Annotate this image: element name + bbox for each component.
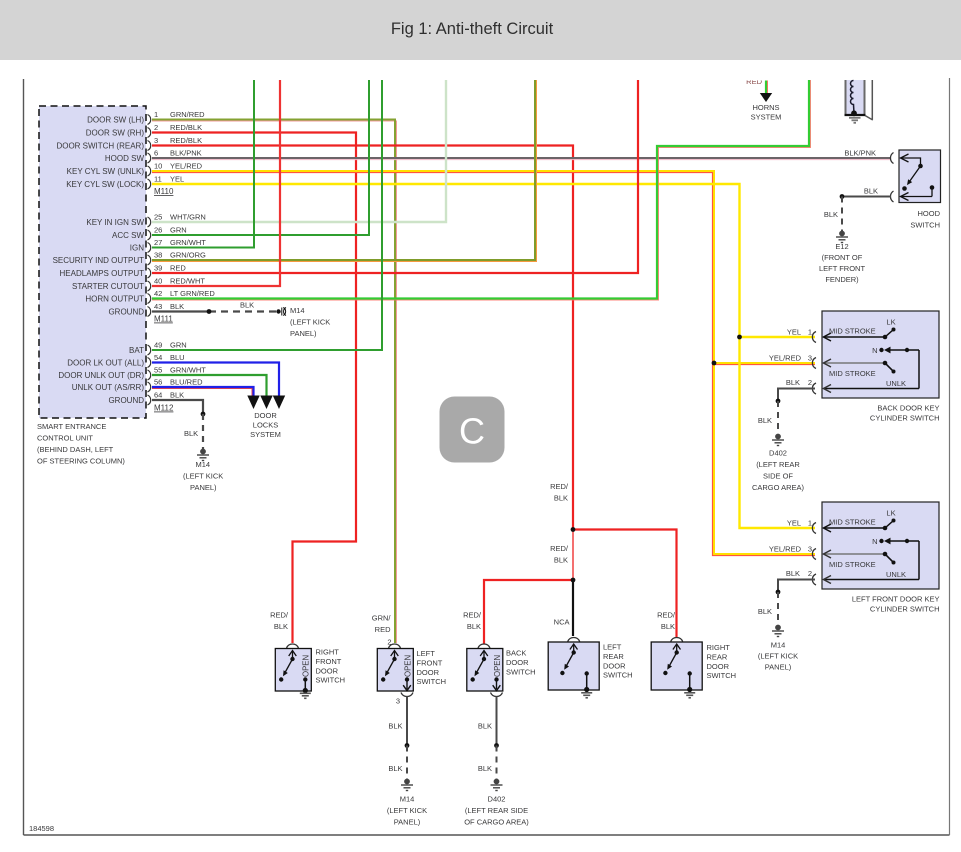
svg-text:RED/: RED/	[657, 611, 676, 620]
svg-text:BLK/PNK: BLK/PNK	[844, 149, 876, 158]
svg-text:3: 3	[808, 354, 812, 363]
svg-text:RED/: RED/	[270, 611, 289, 620]
wire YEL/RED pin10 to key cylinder switches	[152, 173, 815, 556]
svg-text:RED/: RED/	[463, 611, 482, 620]
svg-text:SWITCH: SWITCH	[707, 671, 737, 680]
svg-text:PANEL): PANEL)	[290, 329, 317, 338]
wire BLK/PNK pin6 to hood switch	[152, 159, 891, 161]
svg-text:RED/BLK: RED/BLK	[170, 136, 202, 145]
back door switch ground pin contact	[494, 677, 498, 681]
svg-text:3: 3	[154, 136, 158, 145]
left front door key cylinder switch box	[822, 502, 939, 589]
svg-text:(LEFT KICK: (LEFT KICK	[183, 472, 223, 481]
svg-text:DOOR: DOOR	[316, 666, 339, 675]
ground D402 for back door key cylinder	[772, 434, 784, 445]
svg-text:49: 49	[154, 341, 162, 350]
svg-text:RED/WHT: RED/WHT	[170, 277, 205, 286]
ground E12	[836, 231, 848, 242]
back door key cylinder switch bracket pin	[812, 332, 816, 343]
svg-text:3: 3	[808, 545, 812, 554]
wire GRN/WHT pin55 to door locks	[152, 375, 267, 396]
pin 38 GRN/ORG	[148, 255, 151, 265]
hood switch bracket pin bottom	[890, 191, 893, 202]
svg-text:M14: M14	[400, 795, 415, 804]
svg-text:3: 3	[396, 697, 400, 706]
wire GRN/WHT pin27	[152, 80, 254, 248]
svg-text:NCA: NCA	[554, 618, 570, 627]
svg-text:BLU: BLU	[170, 353, 185, 362]
svg-text:KEY CYL SW (UNLK): KEY CYL SW (UNLK)	[67, 167, 145, 176]
left front door switch internal switch	[387, 651, 399, 674]
svg-text:DOOR: DOOR	[707, 662, 730, 671]
svg-text:(FRONT OF: (FRONT OF	[822, 253, 863, 262]
wire YEL branch to back door key cylinder pin1	[740, 336, 816, 338]
svg-text:CYLINDER SWITCH: CYLINDER SWITCH	[870, 605, 940, 614]
left front door switch BLK wire to M14	[406, 697, 408, 746]
wire BLU/RED pin56 to door locks	[152, 389, 252, 397]
right rear door switch internal switch	[669, 644, 681, 667]
svg-text:M111: M111	[154, 315, 173, 324]
svg-text:DOOR: DOOR	[603, 661, 626, 670]
svg-text:KEY IN IGN SW: KEY IN IGN SW	[86, 218, 144, 227]
wire LT GRN/RED pin42 horn output	[152, 80, 811, 300]
svg-text:2: 2	[387, 638, 391, 647]
svg-text:1: 1	[808, 519, 812, 528]
svg-text:(LEFT REAR: (LEFT REAR	[756, 460, 800, 469]
svg-text:YEL/RED: YEL/RED	[170, 162, 203, 171]
svg-text:MID STROKE: MID STROKE	[829, 327, 876, 336]
pin 54 BLU	[148, 358, 151, 368]
svg-text:BLK: BLK	[554, 494, 568, 503]
svg-text:OPEN: OPEN	[404, 655, 413, 677]
svg-text:DOOR: DOOR	[254, 411, 277, 420]
svg-text:BLK: BLK	[388, 722, 402, 731]
svg-text:BLK: BLK	[824, 210, 838, 219]
svg-text:LK: LK	[886, 509, 895, 518]
svg-text:184598: 184598	[29, 824, 54, 833]
svg-text:RIGHT: RIGHT	[707, 643, 731, 652]
wire BLU pin54 to door locks	[152, 363, 279, 397]
coil inside relay fragment	[851, 81, 855, 114]
svg-text:BLK: BLK	[554, 556, 568, 565]
svg-text:GRN/WHT: GRN/WHT	[170, 238, 206, 247]
svg-text:BLK: BLK	[478, 722, 492, 731]
page bottom border	[24, 834, 950, 836]
svg-text:M14: M14	[290, 306, 305, 315]
svg-text:42: 42	[154, 289, 162, 298]
svg-text:BAT: BAT	[129, 346, 144, 355]
svg-text:SECURITY IND OUTPUT: SECURITY IND OUTPUT	[53, 256, 145, 265]
svg-text:26: 26	[154, 226, 162, 235]
svg-text:RED: RED	[375, 625, 391, 634]
svg-text:BLU/RED: BLU/RED	[170, 378, 203, 387]
svg-text:MID STROKE: MID STROKE	[829, 369, 876, 378]
svg-text:27: 27	[154, 238, 162, 247]
svg-text:C: C	[459, 411, 485, 452]
back door switch box	[467, 649, 503, 692]
wire RED/BLK branch to right rear door switch	[573, 530, 677, 638]
pin 6 BLK/PNK	[148, 153, 151, 163]
svg-text:OF STEERING COLUMN): OF STEERING COLUMN)	[37, 457, 125, 466]
svg-text:FRONT: FRONT	[417, 658, 443, 667]
svg-text:LEFT: LEFT	[603, 643, 622, 652]
wire RED/BLK branch to back door switch	[484, 580, 573, 644]
node pin3 branch splice upper	[571, 527, 576, 532]
wire GRN pin26	[152, 80, 369, 235]
svg-text:YEL/RED: YEL/RED	[769, 354, 802, 363]
svg-text:CYLINDER SWITCH: CYLINDER SWITCH	[870, 414, 940, 423]
back door key cylinder switch lock mid-stroke line	[824, 330, 894, 342]
svg-text:SWITCH: SWITCH	[506, 667, 536, 676]
svg-text:HEADLAMPS OUTPUT: HEADLAMPS OUTPUT	[60, 269, 145, 278]
svg-text:1: 1	[154, 110, 158, 119]
connector M14 inline symbol	[276, 309, 280, 313]
pin 26 GRN	[148, 230, 151, 240]
wire BLK pin64	[152, 400, 203, 414]
svg-text:HOOD: HOOD	[918, 209, 941, 218]
svg-text:BACK DOOR KEY: BACK DOOR KEY	[877, 404, 939, 413]
svg-text:GRN/RED: GRN/RED	[170, 110, 205, 119]
ground D402 under back door switch	[491, 779, 503, 790]
svg-text:LEFT: LEFT	[417, 649, 436, 658]
page right border	[949, 78, 951, 835]
svg-text:GROUND: GROUND	[108, 307, 144, 316]
svg-text:RED: RED	[170, 264, 186, 273]
door locks system arrow 3	[273, 396, 285, 410]
svg-text:CONTROL UNIT: CONTROL UNIT	[37, 434, 93, 443]
door locks system arrow 1	[247, 396, 259, 410]
svg-text:38: 38	[154, 251, 162, 260]
svg-text:SYSTEM: SYSTEM	[250, 430, 281, 439]
svg-text:(BEHIND DASH, LEFT: (BEHIND DASH, LEFT	[37, 445, 114, 454]
left rear door switch box	[548, 642, 599, 690]
svg-text:STARTER CUTOUT: STARTER CUTOUT	[72, 282, 144, 291]
svg-text:BLK: BLK	[274, 622, 288, 631]
back door key cylinder switch box	[822, 311, 939, 398]
wire GRN/ORG pin38	[152, 80, 537, 262]
svg-text:MID STROKE: MID STROKE	[829, 518, 876, 527]
svg-text:2: 2	[808, 569, 812, 578]
svg-text:LOCKS: LOCKS	[253, 421, 278, 430]
wire WHT/GRN pin25	[152, 80, 446, 222]
svg-text:PANEL): PANEL)	[394, 818, 421, 827]
right front door switch bracket	[287, 644, 299, 648]
horns system arrow	[760, 93, 772, 102]
node pin3 branch splice lower	[571, 578, 576, 583]
svg-text:HOOD SW: HOOD SW	[105, 154, 145, 163]
left front door key cylinder switch bracket pin	[812, 523, 816, 534]
back door switch internal switch	[476, 651, 488, 674]
pin 49 GRN	[148, 345, 151, 355]
back door switch bracket	[478, 644, 490, 648]
svg-text:DOOR SW (LH): DOOR SW (LH)	[87, 115, 144, 124]
svg-text:MID STROKE: MID STROKE	[829, 560, 876, 569]
svg-text:SWITCH: SWITCH	[417, 677, 447, 686]
svg-text:BACK: BACK	[506, 648, 526, 657]
svg-text:GROUND: GROUND	[108, 396, 144, 405]
svg-text:REAR: REAR	[707, 652, 728, 661]
left front door key cylinder switch bracket pin	[812, 574, 816, 585]
pin 1 GRN/RED	[148, 115, 151, 125]
svg-text:N: N	[872, 537, 877, 546]
left front door switch box	[377, 649, 413, 692]
svg-text:1: 1	[808, 328, 812, 337]
hood switch box	[899, 150, 941, 203]
ground under relay fragment	[849, 118, 861, 123]
back door key cylinder switch BLK pin2 wire	[778, 389, 815, 401]
svg-text:2: 2	[154, 123, 158, 132]
left front door key cylinder switch lock mid-stroke line	[824, 521, 894, 533]
left front door key cylinder switch pin2 line	[824, 579, 920, 581]
page left border	[23, 79, 25, 835]
pin 40 RED/WHT	[148, 281, 151, 291]
svg-text:FRONT: FRONT	[316, 657, 342, 666]
svg-text:WHT/GRN: WHT/GRN	[170, 213, 206, 222]
back door key cylinder switch bracket pin	[812, 358, 816, 369]
svg-text:6: 6	[154, 149, 158, 158]
svg-text:DOOR SW (RH): DOOR SW (RH)	[86, 128, 145, 137]
svg-text:RED/: RED/	[550, 482, 569, 491]
svg-text:55: 55	[154, 366, 162, 375]
svg-text:BLK: BLK	[184, 429, 198, 438]
svg-text:BLK: BLK	[661, 622, 675, 631]
wire YEL pin11 to key cylinder switches	[152, 184, 815, 528]
svg-text:64: 64	[154, 391, 162, 400]
partial component top right (relay fragment)	[846, 80, 864, 115]
ground M14 under left front door switch	[401, 779, 413, 790]
pin 10 YEL/RED	[148, 166, 151, 176]
svg-text:43: 43	[154, 302, 162, 311]
svg-text:BLK: BLK	[758, 416, 772, 425]
svg-text:CARGO AREA): CARGO AREA)	[752, 483, 805, 492]
pin 56 BLU/RED	[148, 382, 151, 392]
svg-text:PANEL): PANEL)	[190, 483, 217, 492]
back door switch BLK wire to D402	[496, 697, 498, 746]
svg-text:OPEN: OPEN	[493, 655, 502, 677]
node YEL splice	[737, 335, 742, 340]
hood switch ground wire BLK	[842, 196, 891, 198]
svg-text:RED/: RED/	[550, 544, 569, 553]
pin 39 RED	[148, 268, 151, 278]
svg-text:RIGHT: RIGHT	[316, 648, 340, 657]
svg-text:LEFT FRONT: LEFT FRONT	[819, 264, 866, 273]
svg-text:M14: M14	[196, 460, 211, 469]
svg-text:PANEL): PANEL)	[765, 663, 792, 672]
svg-text:BLK: BLK	[240, 301, 254, 310]
svg-text:OPEN: OPEN	[302, 655, 311, 677]
left rear door switch ground contact	[585, 671, 589, 675]
left front door switch pin3 contact	[405, 677, 409, 681]
back door key cylinder switch unlock mid-stroke line	[824, 362, 886, 364]
node YEL/RED splice	[712, 361, 717, 366]
svg-text:10: 10	[154, 162, 162, 171]
svg-text:LT GRN/RED: LT GRN/RED	[170, 289, 215, 298]
hood switch internal contacts	[901, 154, 933, 201]
svg-text:11: 11	[154, 175, 162, 184]
svg-text:DOOR: DOOR	[506, 658, 529, 667]
header bar	[0, 0, 961, 60]
left front door key cylinder switch unlock mid-stroke line	[824, 553, 886, 555]
svg-text:N: N	[872, 346, 877, 355]
right rear door switch ground contact	[688, 671, 692, 675]
svg-text:M110: M110	[154, 187, 174, 196]
svg-text:DOOR SWITCH (REAR): DOOR SWITCH (REAR)	[56, 141, 144, 150]
svg-text:54: 54	[154, 353, 162, 362]
wire YEL/RED branch to back door key cylinder pin3	[714, 364, 815, 366]
left front door key cylinder switch BLK pin2 wire	[778, 580, 815, 592]
pin 3 RED/BLK	[148, 141, 151, 151]
pin 64 BLK	[148, 395, 151, 405]
svg-text:BLK/PNK: BLK/PNK	[170, 149, 202, 158]
svg-text:DOOR UNLK OUT (DR): DOOR UNLK OUT (DR)	[58, 371, 144, 380]
svg-text:M112: M112	[154, 404, 174, 413]
svg-text:LK: LK	[886, 318, 895, 327]
svg-text:LEFT FRONT DOOR KEY: LEFT FRONT DOOR KEY	[852, 595, 940, 604]
svg-text:BLK: BLK	[170, 302, 184, 311]
svg-text:IGN: IGN	[130, 243, 144, 252]
wire RED/WHT pin40	[152, 80, 280, 286]
svg-text:YEL/RED: YEL/RED	[769, 545, 802, 554]
pin 2 RED/BLK	[148, 128, 151, 138]
svg-text:39: 39	[154, 264, 162, 273]
svg-text:(LEFT KICK: (LEFT KICK	[758, 652, 798, 661]
svg-text:UNLK OUT (AS/RR): UNLK OUT (AS/RR)	[72, 383, 145, 392]
svg-text:REAR: REAR	[603, 652, 624, 661]
smart entrance control unit box	[39, 106, 146, 418]
svg-text:SMART ENTRANCE: SMART ENTRANCE	[37, 422, 106, 431]
wire NCA to left rear door switch	[572, 580, 574, 636]
svg-text:SYSTEM: SYSTEM	[751, 113, 782, 122]
svg-text:SIDE OF: SIDE OF	[763, 472, 793, 481]
pin 27 GRN/WHT	[148, 243, 151, 253]
svg-text:BLK: BLK	[758, 607, 772, 616]
relay fragment page-curl edge	[871, 80, 873, 120]
pin 42 LT GRN/RED	[148, 294, 151, 304]
back door key cylinder switch bracket pin	[812, 383, 816, 394]
svg-text:GRN: GRN	[170, 341, 187, 350]
pin 11 YEL	[148, 179, 151, 189]
svg-text:BLK: BLK	[864, 187, 878, 196]
svg-text:BLK: BLK	[786, 569, 800, 578]
wire GRN pin49	[152, 80, 382, 350]
ground M14 for pin64	[197, 449, 209, 460]
hood switch bracket pin top	[890, 153, 893, 164]
svg-text:SWITCH: SWITCH	[910, 221, 940, 230]
svg-text:40: 40	[154, 277, 162, 286]
left rear door switch internal switch	[566, 644, 578, 667]
wire RED pin39	[152, 80, 638, 273]
svg-text:(LEFT REAR SIDE: (LEFT REAR SIDE	[465, 806, 528, 815]
svg-text:DOOR: DOOR	[417, 668, 440, 677]
svg-text:HORN OUTPUT: HORN OUTPUT	[85, 294, 144, 303]
svg-text:BLK: BLK	[467, 622, 481, 631]
wire RED/BLK pin2 to right front door switch	[152, 133, 356, 644]
watermark C icon	[440, 397, 505, 463]
svg-text:56: 56	[154, 378, 162, 387]
right rear door switch box	[651, 642, 702, 690]
pin 43 BLK	[148, 307, 151, 317]
svg-text:OF CARGO AREA): OF CARGO AREA)	[464, 818, 529, 827]
svg-text:GRN/ORG: GRN/ORG	[170, 251, 206, 260]
svg-text:UNLK: UNLK	[886, 379, 906, 388]
svg-text:GRN/WHT: GRN/WHT	[170, 366, 206, 375]
left rear door switch bracket	[568, 638, 580, 642]
svg-text:KEY CYL SW (LOCK): KEY CYL SW (LOCK)	[66, 180, 144, 189]
svg-text:RED/BLK: RED/BLK	[170, 123, 202, 132]
svg-text:BLK: BLK	[478, 764, 492, 773]
svg-text:DOOR LK OUT (ALL): DOOR LK OUT (ALL)	[67, 358, 144, 367]
right rear door switch bracket	[671, 638, 683, 642]
back door key cylinder switch pin2 line	[824, 388, 920, 390]
wire RED/BLK pin3 trunk	[152, 146, 573, 530]
right front door switch internal switch	[285, 651, 297, 674]
svg-text:25: 25	[154, 213, 162, 222]
wire GRN/RED pin1 to left front door switch	[152, 121, 397, 643]
svg-text:FENDER): FENDER)	[825, 275, 859, 284]
svg-text:YEL: YEL	[787, 519, 801, 528]
svg-text:GRN/: GRN/	[372, 614, 392, 623]
svg-text:E12: E12	[835, 242, 848, 251]
wire BLK pin43 dashed segment	[209, 310, 276, 312]
svg-text:SWITCH: SWITCH	[316, 676, 346, 685]
svg-text:UNLK: UNLK	[886, 570, 906, 579]
right front door switch box	[275, 649, 311, 692]
left front door switch bracket	[389, 644, 401, 648]
pin 55 GRN/WHT	[148, 370, 151, 380]
svg-text:D402: D402	[488, 795, 506, 804]
svg-text:ACC SW: ACC SW	[112, 231, 144, 240]
svg-text:HORNS: HORNS	[752, 103, 779, 112]
svg-text:YEL: YEL	[170, 175, 184, 184]
svg-text:Fig 1: Anti-theft Circuit: Fig 1: Anti-theft Circuit	[391, 20, 554, 38]
ground M14 for left front door key cylinder	[772, 625, 784, 636]
svg-text:M14: M14	[771, 641, 786, 650]
svg-text:(LEFT KICK: (LEFT KICK	[290, 318, 330, 327]
svg-text:(LEFT KICK: (LEFT KICK	[387, 806, 427, 815]
svg-text:GRN: GRN	[170, 226, 187, 235]
svg-text:2: 2	[808, 378, 812, 387]
svg-text:BLK: BLK	[388, 764, 402, 773]
node pin43 splice	[207, 309, 212, 314]
svg-text:BLK: BLK	[170, 391, 184, 400]
right front door switch ground contact	[303, 677, 307, 681]
door locks system arrow 2	[260, 396, 272, 410]
svg-text:SWITCH: SWITCH	[603, 671, 633, 680]
wire BLK pin43 solid segment	[152, 310, 209, 312]
left front door key cylinder switch bracket pin	[812, 549, 816, 560]
pin 25 WHT/GRN	[148, 217, 151, 227]
svg-text:YEL: YEL	[787, 328, 801, 337]
svg-text:D402: D402	[769, 449, 787, 458]
svg-text:BLK: BLK	[786, 378, 800, 387]
